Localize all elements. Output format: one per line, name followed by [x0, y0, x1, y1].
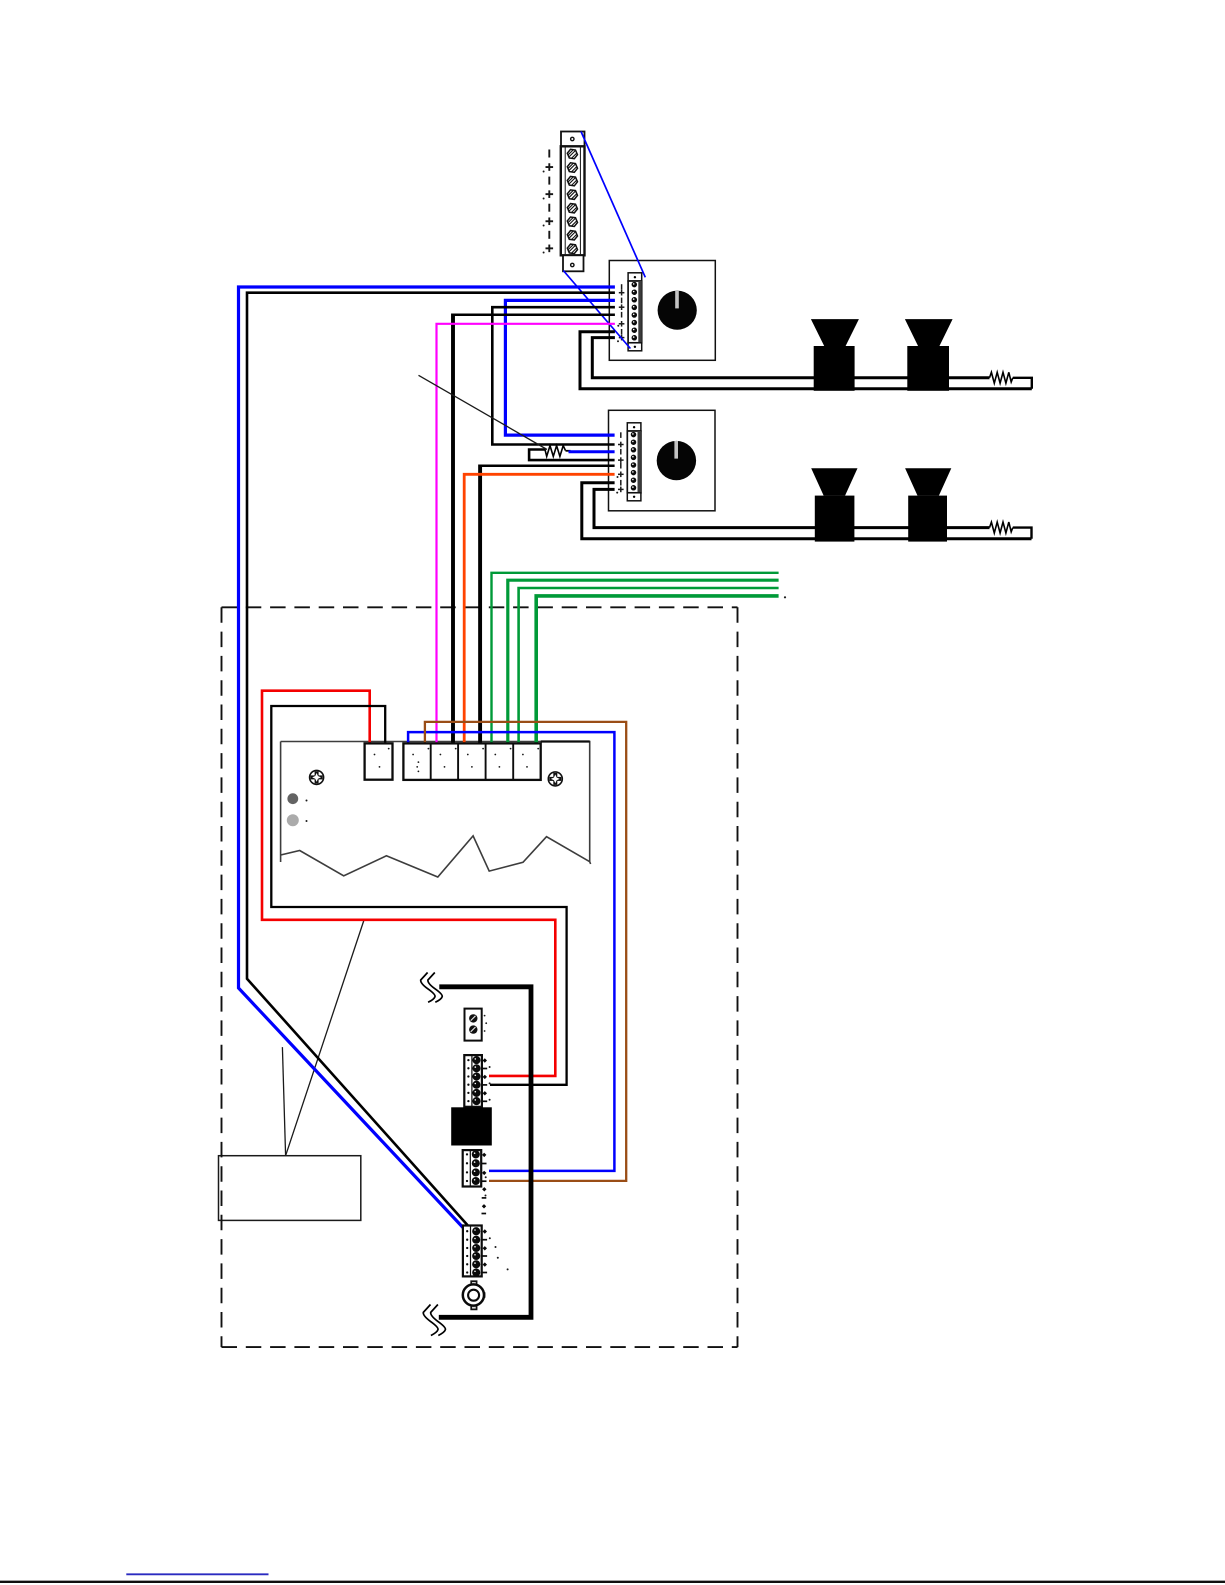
wire green 4 [536, 596, 778, 744]
TB1 polarity labels [546, 150, 554, 253]
board terminal block row of five [403, 743, 540, 780]
volume control VC2 box [609, 410, 716, 511]
terminal strip TB1 [561, 132, 585, 272]
wire black VC2 pin8 speaker feed row2 [594, 489, 990, 527]
wire R1 to return row1 [1013, 378, 1032, 389]
relay K1 [451, 1107, 492, 1145]
connector J1 (2 screw) [465, 1009, 482, 1041]
connector J4 (6 pin) [463, 1226, 482, 1277]
wire black R3 to VC2 pin4 [529, 450, 615, 461]
resistor R3 at VC2 input [545, 446, 566, 457]
VC1 polarity labels [619, 284, 625, 340]
leader to R3 [419, 375, 548, 449]
label box (empty callout) [219, 1156, 361, 1221]
wire black VC1 pin8 speaker feed row1 [592, 338, 989, 378]
wire blue R3 to VC2 pin3 [569, 450, 615, 453]
TB1 leader line lower [563, 271, 630, 349]
speaker SPK1 [811, 319, 859, 391]
wire R2 to return row2 [1013, 528, 1032, 539]
wire red board to J2 [262, 691, 555, 1076]
footer rule [0, 1581, 1225, 1583]
relay pin marks [482, 1187, 486, 1191]
wire green 3 [519, 588, 779, 743]
wire black VC1 pin4 to VC2 pin2 [492, 307, 615, 444]
J3 pin marks [482, 1153, 486, 1157]
VC1 plug connector [628, 273, 642, 351]
thick cable loop [439, 987, 531, 1318]
wire green 1 [492, 573, 779, 744]
wire black VC1 pin2 to J4 [247, 293, 615, 1228]
wire black VC2 pin7 speaker return row2 [582, 483, 1032, 539]
connector J3 (4 pin) [463, 1150, 482, 1186]
VC2 polarity labels [618, 432, 624, 492]
jack J5 [463, 1281, 486, 1309]
board screw left [310, 770, 324, 784]
wire black VC1 pin5 to board [453, 313, 615, 316]
LED dark [287, 793, 298, 804]
J2 pin marks [483, 1058, 487, 1062]
speaker SPK4 [905, 468, 951, 541]
speaker SPK3 [811, 468, 857, 541]
cable break squiggle bottom [423, 1305, 445, 1336]
speaker SPK2 [905, 319, 953, 391]
wire magenta VC1 pin6 to board [437, 324, 615, 744]
wire blue board to J3 [408, 732, 614, 1171]
TB1 hex screws [567, 149, 577, 253]
wire orange VC2 pin6 to board [464, 474, 614, 743]
volume control VC1 box [609, 261, 715, 361]
VC2 knob [657, 441, 696, 480]
board terminal block single [365, 743, 393, 779]
wire blue VC1 pin1 to J4 (diagonal run) [239, 287, 615, 1237]
dashed enclosure box [222, 607, 738, 1347]
footer link underline [126, 1573, 268, 1575]
cable break squiggle top [421, 973, 443, 1003]
EOL resistor R1 row1 [990, 372, 1013, 383]
leader to Cat-5 pair [282, 1047, 285, 1156]
wire black VC1 pin7 speaker return row1 [580, 332, 1032, 389]
J4 pin marks [483, 1229, 487, 1233]
VC2 plug connector [627, 423, 641, 501]
LED light [287, 814, 299, 826]
board screw right [548, 772, 562, 786]
wire black VC2 pin5 to board [480, 464, 614, 467]
connector J2 (6 pin) [464, 1055, 482, 1107]
TB1 leader line upper [581, 132, 645, 278]
wire brown board to J3 [425, 722, 626, 1181]
wire green 2 [508, 580, 779, 743]
wire black board to J2 [271, 706, 566, 1085]
amplifier board (torn-edge outline) [281, 742, 591, 878]
leader to red/black pair [286, 920, 364, 1156]
wire blue VC1 pin3 to VC2 pin1 [505, 300, 615, 435]
VC1 knob [658, 291, 697, 330]
EOL resistor R2 row2 [990, 522, 1013, 533]
